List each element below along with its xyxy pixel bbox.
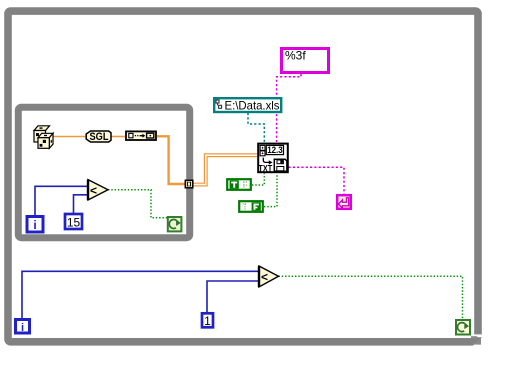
svg-text:E:\Data.xls: E:\Data.xls	[225, 98, 280, 112]
svg-text:12.3: 12.3	[267, 145, 283, 156]
svg-text:<: <	[90, 183, 97, 197]
svg-text:i: i	[21, 322, 24, 334]
svg-text:TXT: TXT	[258, 164, 272, 174]
svg-text:<: <	[261, 270, 268, 284]
svg-text:15: 15	[67, 216, 81, 230]
svg-text:i: i	[33, 218, 36, 232]
svg-text:%3f: %3f	[285, 49, 306, 63]
svg-text:1: 1	[204, 314, 211, 328]
svg-text:SGL: SGL	[90, 131, 109, 143]
